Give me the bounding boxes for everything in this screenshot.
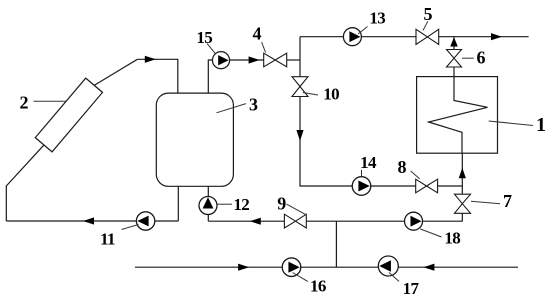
wire: valve9 to pump12 drop <box>208 220 284 222</box>
arrow up on hx riser <box>459 168 466 179</box>
wire: hx bottom riser <box>461 153 463 194</box>
arrow right before valve 4 <box>249 56 260 63</box>
svg-text:13: 13 <box>369 9 385 28</box>
svg-text:7: 7 <box>503 191 512 211</box>
arrow left on that wire <box>250 218 261 225</box>
wire: valve8 to hx riser <box>438 185 463 187</box>
callout 3 <box>217 104 246 113</box>
svg-text:11: 11 <box>100 230 115 249</box>
hx coil <box>429 77 488 154</box>
wire: junction riser between lines <box>335 221 337 267</box>
svg-text:14: 14 <box>360 153 377 172</box>
wire: bottom supply line <box>135 266 518 268</box>
arrow down on riser <box>296 130 303 141</box>
svg-text:16: 16 <box>310 277 326 296</box>
callout 14 <box>361 170 363 177</box>
wire: pump12 drop from tank <box>207 186 209 221</box>
callout 2 <box>34 100 66 102</box>
svg-text:10: 10 <box>323 85 339 104</box>
svg-text:18: 18 <box>444 229 460 248</box>
wire: collector lower diagonal <box>6 145 44 186</box>
wire: valve7 down and left to pump18 <box>306 213 462 221</box>
arrow left on return line <box>83 217 94 224</box>
callout 4 <box>262 42 266 53</box>
callout 11 <box>122 225 139 230</box>
callout 18 <box>420 229 441 237</box>
valve 6 <box>447 50 462 68</box>
callout 1 <box>489 121 533 126</box>
svg-text:15: 15 <box>196 28 212 47</box>
pump P18 <box>405 212 423 230</box>
wire: tank to pump15 line <box>208 60 263 94</box>
heat exchanger box 1 <box>417 77 498 154</box>
callout 10 <box>303 93 318 96</box>
svg-text:6: 6 <box>477 48 486 68</box>
callout 7 <box>471 201 500 204</box>
arrow up below top line <box>450 37 458 46</box>
wire: top-left horizontal to tank <box>137 59 177 93</box>
callout 9 <box>287 204 306 215</box>
pump P11 <box>136 212 154 230</box>
wire: top main line <box>300 36 416 38</box>
valve 4 <box>264 53 287 67</box>
wire: center riser x=300 <box>299 37 301 77</box>
wire: left riser bottom <box>5 186 7 222</box>
svg-text:4: 4 <box>253 24 262 44</box>
pump P12 <box>199 197 217 215</box>
callout 6 <box>462 57 474 59</box>
pump P15 <box>212 52 229 69</box>
pump P13 <box>343 28 361 46</box>
wire: bottom-left return line <box>6 220 178 222</box>
svg-text:17: 17 <box>403 279 420 298</box>
valve 10 <box>292 77 308 97</box>
wire: branch down to valve 6 <box>453 37 455 50</box>
svg-text:1: 1 <box>536 114 546 136</box>
svg-text:5: 5 <box>424 4 433 24</box>
svg-text:12: 12 <box>233 195 249 214</box>
pump P14 <box>352 177 371 196</box>
arrow right on top-left wire <box>145 56 156 63</box>
callout 12 <box>217 203 232 205</box>
wire: top main line right part <box>439 36 529 38</box>
valve 8 <box>416 179 438 193</box>
callout 13 <box>358 27 368 35</box>
arrow left on bottom line <box>423 264 434 271</box>
collector panel 2 <box>35 78 102 152</box>
svg-text:2: 2 <box>20 92 29 112</box>
callout 8 <box>411 171 420 179</box>
svg-text:8: 8 <box>398 157 407 177</box>
tank 3 <box>156 93 233 186</box>
valve 9 <box>284 214 306 228</box>
wire: collector upper diagonal <box>94 59 137 85</box>
arrow right on bottom line <box>238 264 249 271</box>
pump P17 <box>378 256 398 276</box>
callout 16 <box>293 273 308 282</box>
wire: riser below valve10 with corner to pump14 line <box>300 97 416 187</box>
callout 15 <box>207 44 215 54</box>
callout 17 <box>389 273 399 282</box>
valve 7 <box>455 194 471 213</box>
wire: valve6 to hx top <box>453 67 455 77</box>
wire: tank bottom-left drop <box>177 186 179 221</box>
svg-text:3: 3 <box>249 95 258 115</box>
callout 5 <box>423 21 428 30</box>
pump P16 <box>282 258 301 277</box>
valve 5 <box>416 29 439 44</box>
wire: valve4 to riser <box>287 59 300 61</box>
svg-text:9: 9 <box>277 194 286 214</box>
arrow right on top main line <box>491 33 502 40</box>
